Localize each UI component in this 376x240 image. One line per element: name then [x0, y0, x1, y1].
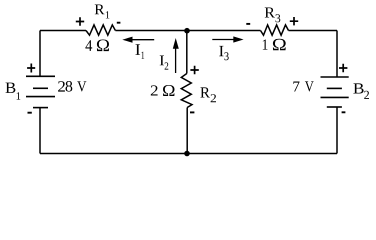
label 1 ohm value [263, 39, 286, 50]
label I1 [135, 44, 144, 59]
polarity - bottom of R2 [190, 111, 194, 113]
node top junction [184, 28, 190, 34]
polarity + top of R2 [190, 66, 198, 74]
label B1 [6, 83, 21, 100]
resistor R3 [261, 25, 289, 35]
label R2 [200, 87, 216, 102]
wire middle lower (R2 bottom to node) [186, 108, 188, 154]
wire top-right segment [289, 30, 338, 32]
label I3 [219, 46, 229, 60]
polarity + left of R1 [76, 17, 84, 25]
current arrow I2 [173, 38, 179, 73]
label R3 [265, 8, 281, 23]
label 28 V value [58, 81, 86, 92]
polarity + above B1 [27, 64, 35, 73]
polarity - below B2 [342, 111, 346, 113]
polarity - below B1 [28, 112, 32, 114]
wire top-left segment [40, 30, 86, 32]
node bottom junction [184, 151, 190, 157]
wire left upper (top corner to B1) [39, 31, 41, 77]
wire right lower (B2 to bottom corner) [336, 107, 338, 154]
label 7 V value [293, 81, 313, 91]
battery B1 [26, 76, 55, 107]
wire right upper (top corner to B2) [336, 31, 338, 78]
current arrow I1 [122, 37, 154, 43]
wire bottom [40, 153, 337, 155]
polarity + right of R3 [290, 17, 298, 25]
battery B2 [321, 77, 349, 107]
resistor R1 [86, 25, 115, 35]
polarity - left of R3 [246, 23, 250, 25]
label 2 ohm value [151, 85, 175, 96]
label B2 [353, 83, 369, 99]
polarity - right of R1 [117, 22, 121, 24]
wire left lower (B1 to bottom corner) [39, 108, 41, 154]
label R1 [95, 5, 110, 19]
wire middle upper (node to R2 top) [186, 31, 188, 74]
label 4 ohm value [85, 40, 109, 52]
current arrow I3 [212, 36, 243, 42]
resistor R2 [181, 74, 192, 108]
polarity + above B2 [339, 64, 347, 72]
label I2 [160, 56, 169, 70]
wire top-middle segment [115, 30, 260, 32]
